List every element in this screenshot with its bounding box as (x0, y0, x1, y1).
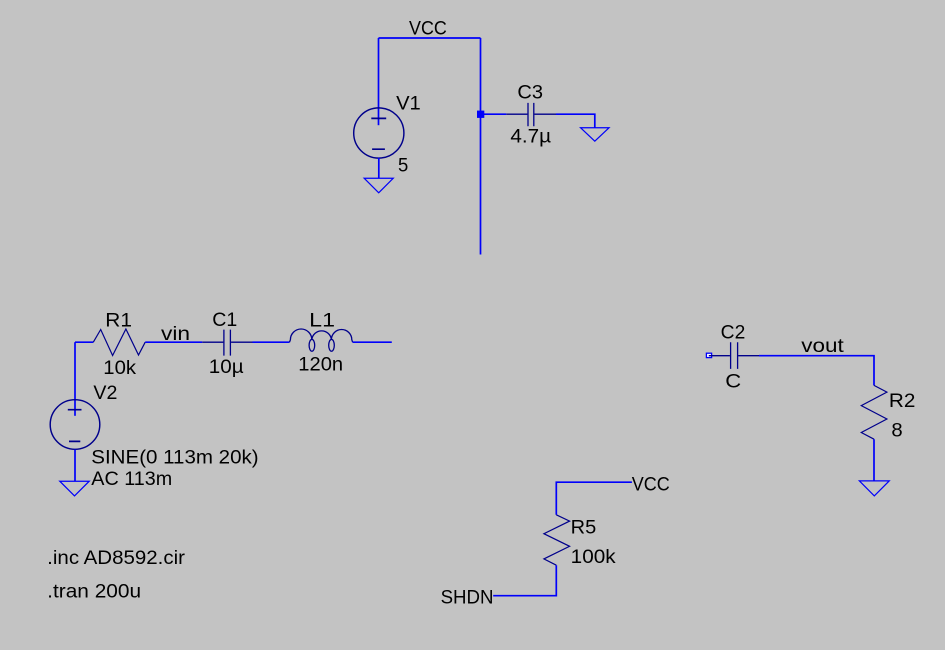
wire R1 to C1 (145, 341, 202, 343)
svg-text:C: C (725, 372, 741, 393)
svg-text:8: 8 (891, 421, 902, 442)
capacitor C3 (506, 103, 556, 126)
wire node to C3 (484, 113, 506, 115)
svg-text:R1: R1 (105, 311, 132, 332)
voltage source V2 (50, 400, 100, 450)
ground under R2 (859, 481, 889, 496)
wire R5 top to VCC (556, 482, 632, 515)
wire V1 top vertical (378, 38, 380, 125)
voltage source V1 (354, 108, 404, 158)
svg-text:4.7µ: 4.7µ (510, 127, 551, 148)
svg-text:10k: 10k (103, 358, 136, 379)
pin marker C2 (706, 353, 711, 357)
svg-text:SINE(0 113m 20k): SINE(0 113m 20k) (91, 448, 258, 469)
junction node (477, 111, 484, 118)
svg-text:C2: C2 (721, 322, 746, 343)
svg-text:SHDN: SHDN (441, 588, 494, 609)
resistor R5 (544, 515, 570, 565)
svg-text:100k: 100k (571, 547, 616, 568)
wire V2 bottom (74, 450, 76, 482)
svg-text:.tran 200u: .tran 200u (47, 581, 141, 602)
svg-text:V2: V2 (93, 383, 117, 404)
svg-text:vin: vin (161, 324, 190, 345)
inductor L1 (290, 329, 353, 351)
ground under V2 (60, 481, 89, 496)
capacitor C2 (709, 342, 759, 369)
wire R5 bottom to SHDN (493, 565, 556, 596)
svg-text:L1: L1 (309, 311, 335, 332)
svg-text:VCC: VCC (409, 19, 447, 40)
wire C3 to ground (556, 114, 595, 127)
ground right of C3 (581, 128, 609, 141)
svg-text:R2: R2 (889, 391, 916, 412)
svg-text:AC 113m: AC 113m (91, 469, 172, 490)
svg-text:120n: 120n (298, 355, 343, 376)
wire L1 dangling right (353, 341, 392, 343)
capacitor C1 (202, 330, 252, 356)
wire V2 to R1 (75, 341, 93, 343)
wire V1 bottom (378, 158, 380, 178)
svg-text:10µ: 10µ (209, 357, 244, 378)
wire R2 to ground (873, 439, 875, 481)
resistor R2 (861, 385, 887, 439)
svg-text:R5: R5 (571, 517, 597, 538)
svg-text:vout: vout (801, 336, 844, 357)
svg-text:C1: C1 (212, 310, 237, 331)
wire VCC top horizontal (379, 37, 481, 39)
resistor R1 (93, 329, 145, 356)
wire C2 to R2 (759, 356, 874, 386)
wire C1 to L1 (253, 341, 290, 343)
svg-text:C3: C3 (517, 83, 543, 104)
svg-text:.inc AD8592.cir: .inc AD8592.cir (47, 548, 186, 569)
wire VCC right vertical (480, 38, 482, 255)
wire V2 top vertical (74, 342, 76, 416)
svg-text:VCC: VCC (632, 474, 670, 495)
svg-text:5: 5 (398, 156, 408, 177)
svg-text:V1: V1 (396, 94, 421, 115)
ground under V1 (364, 178, 393, 193)
